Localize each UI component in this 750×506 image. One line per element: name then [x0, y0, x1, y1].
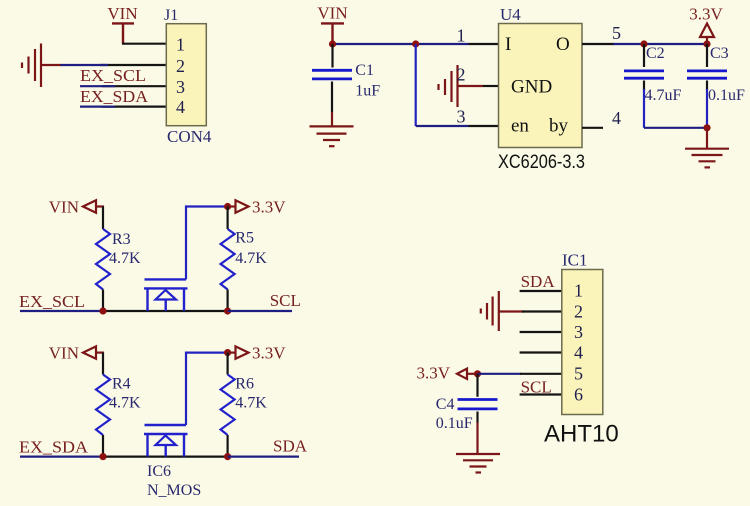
svg-text:R5: R5	[235, 230, 254, 247]
wire C2-C3 bottom rail (navy)	[644, 127, 707, 129]
wire SDA (navy)	[228, 456, 299, 458]
resistor R6	[221, 375, 268, 436]
junction node R5/3.3V	[224, 203, 231, 210]
svg-text:by: by	[549, 116, 569, 137]
junction node C3/3.3V	[703, 40, 710, 47]
wire SCL (navy)	[228, 310, 292, 312]
svg-text:2: 2	[176, 56, 185, 76]
wire VIN to R4 (black)	[102, 353, 104, 375]
wire C3 bottom (vertical navy)	[706, 89, 708, 128]
svg-text:SCL: SCL	[270, 291, 301, 310]
wire EX_SDA stub (navy)	[80, 105, 115, 107]
svg-text:2: 2	[457, 65, 466, 85]
junction node R5/SCL	[224, 307, 231, 314]
svg-text:XC6206-3.3: XC6206-3.3	[498, 152, 585, 173]
ground (signal ground, U4 pin 2)	[439, 65, 458, 107]
svg-text:IC1: IC1	[562, 251, 588, 270]
wire ground to J1 pin 2 (maroon stub)	[41, 64, 62, 66]
wire VIN to J1 pin 1	[122, 43, 166, 45]
svg-text:O: O	[556, 34, 570, 55]
ground (signal ground, IC1 pin 2)	[481, 291, 499, 331]
wire mosfet gate riser to 3.3V	[186, 207, 228, 280]
wire VIN to R3 (black)	[102, 207, 104, 230]
wire mosfet gate riser to 3.3V	[186, 353, 228, 425]
ground (earth, output)	[685, 149, 729, 168]
wire rail to ground (maroon)	[706, 128, 708, 149]
wire ground to U4 pin2 (maroon)	[458, 85, 484, 87]
wire U4 pin4 black pin	[582, 127, 603, 129]
wire IC1 pin3 black pin	[520, 331, 562, 333]
svg-text:IC6: IC6	[147, 463, 171, 480]
svg-text:4.7K: 4.7K	[109, 250, 141, 267]
svg-text:R6: R6	[235, 376, 254, 393]
svg-text:3.3V: 3.3V	[689, 5, 723, 24]
wire IC1 pin1 black pin	[520, 290, 562, 292]
svg-text:3.3V: 3.3V	[252, 344, 286, 363]
wire J1 pin3 black pin	[102, 85, 166, 87]
junction node ground rail	[703, 124, 710, 131]
ground (signal ground, J1 pin 2)	[22, 44, 41, 88]
svg-text:0.1uF: 0.1uF	[436, 415, 473, 432]
power port 3.3V (up arrow)	[689, 5, 723, 45]
svg-text:VIN: VIN	[107, 4, 137, 23]
wire 3.3V output rail (navy)	[613, 43, 707, 45]
junction node C2 top	[640, 40, 647, 47]
capacitor C3	[687, 44, 745, 104]
power port 3.3V (right arrow)	[228, 198, 287, 217]
wire R3 bottom pin (black)	[102, 290, 104, 312]
junction node R6/SDA	[224, 453, 231, 460]
wire pin2 black pin	[100, 64, 166, 66]
power port VIN (left arrow)	[49, 344, 104, 363]
junction node R6/3.3V	[224, 349, 231, 356]
svg-text:3: 3	[457, 107, 466, 127]
svg-text:J1: J1	[164, 7, 178, 24]
svg-text:N_MOS: N_MOS	[147, 482, 201, 499]
svg-text:3: 3	[176, 77, 185, 97]
svg-text:2: 2	[574, 302, 583, 322]
wire EX_SCL (navy)	[20, 310, 103, 312]
svg-text:4: 4	[612, 108, 621, 128]
svg-text:4: 4	[574, 343, 583, 363]
svg-text:4.7uF: 4.7uF	[645, 87, 682, 104]
resistor R3	[96, 229, 141, 290]
svg-text:EX_SDA: EX_SDA	[80, 87, 149, 106]
power port VIN (J1)	[107, 4, 137, 44]
wire EX_SCL stub (navy)	[80, 85, 115, 87]
wire C1 to ground (maroon)	[331, 112, 333, 126]
capacitor C2	[624, 44, 682, 104]
wire IC1 pin6 black pin	[520, 393, 562, 395]
junction node R3/EX_SCL	[99, 307, 106, 314]
svg-text:5: 5	[574, 364, 583, 384]
wire IC1 pin5 black pin	[520, 373, 562, 375]
wire IC1 pin2 black pin	[522, 310, 562, 312]
wire U4 pin3 black pin	[469, 125, 499, 127]
connector J1 body	[166, 24, 206, 126]
svg-text:C3: C3	[710, 45, 729, 62]
svg-text:1: 1	[574, 281, 583, 301]
svg-text:SDA: SDA	[273, 437, 308, 456]
wire EX_SDA to mosfet (black)	[103, 456, 228, 458]
svg-text:VIN: VIN	[49, 344, 79, 363]
svg-text:4.7K: 4.7K	[235, 250, 267, 267]
wire C2 bottom (vertical navy)	[643, 89, 645, 128]
wire EX_SCL to mosfet (black)	[103, 310, 228, 312]
sensor IC1 body	[562, 270, 603, 415]
svg-text:1: 1	[176, 34, 185, 54]
wire J1 pin4 black pin	[102, 105, 166, 107]
svg-text:4.7K: 4.7K	[235, 395, 267, 412]
svg-text:CON4: CON4	[167, 127, 212, 146]
svg-text:U4: U4	[500, 5, 521, 24]
junction node R4/EX_SDA	[99, 453, 106, 460]
transistor Q1 N-MOS (SCL)	[144, 279, 188, 311]
resistor R5	[221, 229, 268, 290]
wire ground net (navy)	[61, 64, 109, 66]
wire branch down to en (vertical)	[415, 44, 417, 126]
svg-text:6: 6	[574, 385, 583, 405]
svg-text:SDA: SDA	[521, 272, 556, 291]
wire R6 bottom pin (black)	[227, 435, 229, 457]
svg-text:EX_SDA: EX_SDA	[19, 438, 89, 457]
svg-text:3.3V: 3.3V	[416, 364, 450, 383]
svg-text:en: en	[511, 116, 529, 137]
svg-text:4.7K: 4.7K	[109, 395, 141, 412]
capacitor C1	[312, 44, 380, 112]
svg-text:3.3V: 3.3V	[252, 198, 286, 217]
wire IC1 pin4 black pin	[520, 351, 562, 353]
power port 3.3V (left arrow, IC1)	[416, 364, 478, 383]
wire EX_SDA (navy)	[20, 456, 103, 458]
regulator U4 body	[499, 24, 583, 148]
svg-text:1: 1	[457, 26, 466, 46]
svg-text:3: 3	[574, 322, 583, 342]
power port VIN (U4 input)	[317, 4, 347, 45]
svg-text:0.1uF: 0.1uF	[708, 87, 745, 104]
capacitor C4	[436, 374, 498, 432]
transistor IC6 N-MOS (SDA)	[144, 425, 188, 457]
power port 3.3V (right arrow)	[228, 344, 287, 363]
svg-text:I: I	[505, 34, 511, 55]
wire R4 bottom pin (black)	[102, 435, 104, 457]
svg-text:C2: C2	[646, 45, 665, 62]
wire R5 bottom pin (black)	[227, 290, 229, 312]
ground (earth, C1)	[310, 126, 354, 146]
junction node VIN/C1	[329, 40, 336, 47]
junction node 3.3V/C4	[474, 370, 481, 377]
svg-text:4: 4	[176, 97, 185, 117]
svg-text:EX_SCL: EX_SCL	[19, 292, 85, 311]
svg-text:C1: C1	[355, 62, 374, 79]
svg-text:R4: R4	[112, 376, 131, 393]
svg-text:VIN: VIN	[317, 4, 347, 23]
wire C4 to ground (maroon)	[476, 422, 478, 454]
junction node en-branch	[412, 40, 419, 47]
wire ground to IC1 pin2 (maroon)	[499, 310, 524, 312]
power port VIN (left arrow)	[49, 198, 104, 217]
svg-text:R3: R3	[112, 231, 131, 248]
wire U4 pin1 black pin	[469, 43, 499, 45]
wire 3.3V to R6 (black)	[227, 353, 229, 375]
svg-text:1uF: 1uF	[355, 83, 380, 100]
svg-text:AHT10: AHT10	[544, 421, 619, 448]
wire U4 pin2 black pin	[483, 85, 499, 87]
resistor R4	[96, 375, 141, 436]
svg-text:GND: GND	[511, 77, 552, 98]
svg-text:EX_SCL: EX_SCL	[80, 66, 146, 85]
ground (earth, C4)	[456, 454, 500, 473]
wire U4 pin5 black pin	[582, 43, 614, 45]
wire 3.3V to R5 (black)	[227, 207, 229, 230]
wire 3.3V to IC1 pin5 (navy)	[478, 373, 522, 375]
svg-text:C4: C4	[436, 396, 455, 413]
svg-text:VIN: VIN	[49, 198, 79, 217]
wire branch to en pin (navy)	[416, 125, 469, 127]
wire VIN rail to U4 pin1 (navy)	[333, 43, 469, 45]
svg-text:5: 5	[612, 23, 621, 43]
